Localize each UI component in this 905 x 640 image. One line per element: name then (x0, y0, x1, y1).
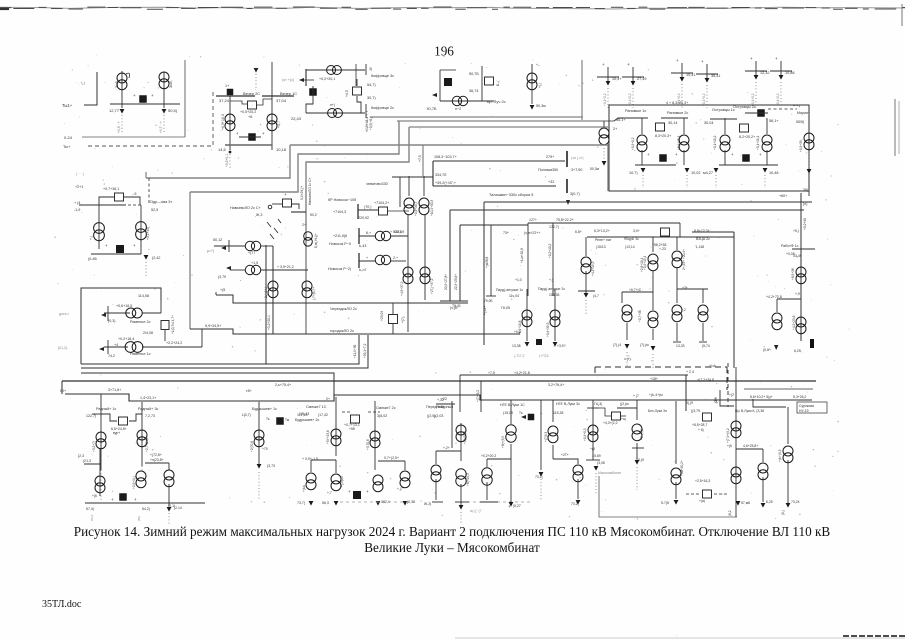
svg-text:11ч,04: 11ч,04 (509, 294, 519, 298)
feeder B2 wire (271, 62, 273, 150)
T-bar busbar lower (566, 179, 568, 193)
svg-text:+7104,2+: +7104,2+ (374, 201, 389, 205)
dotted tail (460, 512, 462, 524)
svg-text:+0,5: +0,5 (514, 330, 521, 334)
svg-text:Бес,Луки Зп: Бес,Луки Зп (648, 409, 667, 413)
staircase 2 drop (189, 192, 191, 329)
svg-text:37,04: 37,04 (276, 98, 287, 103)
svg-text:+2,9+1(,): +2,9+1(,) (132, 476, 136, 489)
scan noise dash (198, 7, 218, 9)
routing connector (422, 145, 424, 176)
lower gray bus (225, 144, 272, 146)
svg-text:(за (,зт): (за (,зт) (571, 156, 584, 160)
tie bus (719, 164, 778, 166)
feeder wire (683, 118, 685, 134)
bus tick (632, 447, 644, 449)
end bar (305, 69, 307, 86)
feeder wire (258, 402, 260, 464)
feeder B1 wire (229, 96, 231, 150)
corridor bus 2 (409, 126, 609, 128)
wire (359, 235, 376, 237)
regulator (389, 315, 398, 324)
column wire (490, 225, 492, 296)
svg-text:Островцы 1с: Островцы 1с (712, 108, 735, 112)
svg-text:20,9+27,8+: 20,9+27,8+ (444, 274, 448, 290)
bar (358, 228, 360, 244)
svg-text:(50,: (50, (137, 516, 141, 521)
svg-text:56,1+: 56,1+ (769, 119, 779, 123)
dashed tie (768, 108, 797, 110)
transformer (456, 425, 466, 442)
wire (435, 479, 437, 500)
svg-text:Б,м(,НЦ(+: Б,м(,НЦ(+ (314, 233, 318, 248)
feeder bar 4 (696, 73, 718, 75)
svg-text:Смекке7 2с: Смекке7 2с (376, 406, 396, 410)
svg-text:+0,1+0,2: +0,1+0,2 (776, 93, 780, 106)
svg-text:Ь,43: Ь,43 (359, 244, 366, 248)
svg-text:городокЛО 2с: городокЛО 2с (330, 329, 354, 333)
tie bus (85, 502, 205, 504)
wire (692, 231, 734, 233)
svg-text:-1,9: -1,9 (74, 208, 80, 212)
box left vertical 2 (449, 210, 451, 301)
svg-text:+(6: +(6 (727, 444, 732, 448)
svg-text:(3,08: (3,08 (597, 461, 605, 465)
regulator (703, 413, 712, 421)
scan noise dash (667, 7, 687, 9)
svg-text:+4,2+72,8: +4,2+72,8 (766, 295, 782, 299)
svg-text:+0,2+20,2: +0,2+20,2 (481, 454, 496, 458)
svg-text:+: + (151, 93, 154, 98)
svg-text:90црЬ 1с: 90црЬ 1с (624, 237, 639, 241)
wire (310, 460, 312, 472)
dotted tail (764, 175, 766, 188)
tick (699, 341, 707, 343)
svg-text:74,2: 74,2 (108, 354, 115, 358)
feeder wire (592, 400, 594, 460)
svg-text:+60+: +60+ (779, 194, 787, 198)
svg-text:Новосок Р−2): Новосок Р−2) (328, 267, 351, 271)
wire (168, 484, 170, 506)
dotted tail (366, 111, 368, 133)
dotted tail (595, 473, 597, 495)
svg-text:(0,3): (0,3) (108, 319, 115, 323)
svg-text:10,48: 10,48 (769, 171, 779, 175)
svg-text:+7+(7,2: +7+(7,2 (640, 429, 644, 440)
arrow down (566, 200, 570, 205)
svg-text:НГЕ В,Луки 1С: НГЕ В,Луки 1С (500, 403, 525, 407)
svg-text:(0,): (0,) (781, 510, 785, 515)
wire (510, 444, 512, 502)
svg-text:10,18: 10,18 (276, 147, 287, 152)
svg-text:+0,5 · +: +0,5 · + (117, 121, 121, 133)
wire (776, 299, 778, 312)
faint dashes (455, 501, 530, 503)
scan noise dash (293, 6, 315, 8)
wire (142, 346, 202, 348)
bus tick (92, 413, 106, 415)
feeder wire (787, 407, 789, 444)
svg-text:6,25: 6,25 (766, 500, 773, 504)
transformer (420, 267, 430, 284)
svg-text:+8(+(3,5: +8(+(3,5 (501, 436, 505, 448)
load arrow A1 (120, 109, 125, 114)
svg-text:50,7Б: 50,7Б (469, 72, 479, 76)
transformer I1 (126, 308, 143, 318)
svg-text:Пекарный: Пекарный (436, 405, 453, 409)
long line C (81, 373, 334, 395)
feeder wire (724, 150, 726, 165)
svg-text:12,32: 12,32 (760, 71, 770, 75)
wire (104, 346, 128, 348)
scan noise dash (707, 7, 728, 9)
breaker F (116, 245, 124, 253)
svg-text:+1,5: +1,5 (251, 261, 258, 265)
svg-text:+: + (284, 192, 287, 197)
bus bar (661, 117, 688, 119)
wire (777, 298, 801, 300)
svg-text:Сурокова: Сурокова (799, 404, 814, 408)
tap wire (257, 99, 272, 105)
scan noise dash (822, 7, 830, 9)
load arrow (714, 168, 719, 173)
svg-text:+1,0: +1,0 (515, 278, 522, 282)
box bus lower (450, 209, 804, 211)
svg-text:'1,148: '1,148 (695, 245, 704, 249)
scan noise dash (320, 7, 337, 9)
scan noise top edge (0, 7, 905, 9)
feeder wire (766, 118, 768, 134)
tick (432, 501, 443, 503)
svg-text:115,38: 115,38 (553, 411, 563, 415)
wire (423, 176, 425, 196)
line 330kV a (433, 160, 565, 162)
svg-text:8,8+72,3+: 8,8+72,3+ (694, 229, 710, 233)
svg-text:Ть: Ть (519, 411, 523, 415)
svg-text:36,1+: 36,1+ (616, 118, 626, 122)
svg-text:8,3+26,2: 8,3+26,2 (793, 395, 806, 399)
feeder drop (632, 67, 634, 81)
transformer (403, 267, 413, 284)
wire (99, 449, 101, 496)
scan noise dash (166, 7, 179, 9)
arrow left (221, 246, 226, 250)
svg-text:+: + (133, 243, 136, 248)
feeder drop (780, 61, 782, 75)
svg-text:+0,9+0,2: +0,9+0,2 (631, 137, 635, 150)
svg-text:(2,3: (2,3 (78, 454, 84, 458)
load arrow (144, 255, 149, 260)
svg-text:Ж,3: Ж,3 (256, 213, 262, 217)
svg-text:Рисунок 14. Зимний режим макси: Рисунок 14. Зимний режим максимальных на… (74, 524, 831, 539)
svg-text:+(ЬЬ: +(ЬЬ (302, 485, 306, 492)
wire (365, 64, 367, 75)
svg-text:+: + (675, 152, 678, 157)
svg-text:8,3+20,3+: 8,3+20,3+ (655, 134, 671, 138)
dashed stub (342, 411, 352, 413)
svg-text:Ж,2): Ж,2) (424, 502, 431, 506)
breaker C (309, 88, 317, 96)
feeder bar 6 (770, 70, 792, 72)
wire (160, 300, 162, 313)
svg-text:127+: 127+ (529, 218, 537, 222)
svg-text:+11,9+36: +11,9+36 (353, 345, 357, 358)
svg-text:+39,1+7,2: +39,1+7,2 (363, 343, 367, 358)
transformer (758, 463, 768, 480)
svg-text:(4,7: (4,7 (593, 294, 599, 298)
end tick (440, 300, 468, 302)
svg-text:Раменье 2с: Раменье 2с (130, 320, 151, 324)
regulator B (248, 101, 257, 109)
svg-text:+ 2 4: + 2 4 (686, 370, 694, 374)
transformer (404, 198, 414, 215)
load arrow (807, 169, 812, 174)
dotted tail (607, 88, 609, 108)
feeder wire (140, 205, 142, 254)
svg-text:Ранимые 1с: Ранимые 1с (625, 109, 646, 113)
wire (357, 96, 361, 113)
svg-text:Островцы 2с: Островцы 2с (733, 105, 756, 109)
svg-text:+7,5: +7,5 (418, 155, 422, 162)
column wire (585, 237, 587, 256)
feeder wire (141, 402, 143, 466)
gray routing wire (599, 476, 737, 517)
regulator (703, 490, 712, 498)
svg-text:Кифровце 2с: Кифровце 2с (371, 106, 394, 110)
wire (702, 289, 704, 303)
tie wire (239, 136, 261, 138)
svg-text:п−2: п−2 (455, 107, 461, 111)
dotted tail (540, 479, 542, 500)
riser (201, 329, 203, 347)
T-bar busbar upper (566, 151, 568, 167)
outer box right (581, 60, 583, 120)
regulator R2 (740, 124, 749, 132)
stub (356, 79, 358, 86)
svg-text:(2+: (2+ (714, 398, 718, 403)
transformer (731, 421, 741, 438)
breaker (276, 417, 284, 425)
svg-text:+(7(9,3: +(7(9,3 (544, 432, 548, 442)
svg-text:(15/13: (15/13 (596, 245, 606, 249)
svg-text:30,04: 30,04 (704, 121, 714, 125)
svg-text:((2,(м: ((2,(м (620, 402, 629, 406)
tick bar (291, 211, 306, 213)
svg-text:2+: 2+ (326, 397, 330, 401)
svg-text:(2,42: (2,42 (152, 256, 160, 260)
svg-text:+(77: +(77 (248, 251, 255, 255)
transformer (720, 135, 730, 152)
scan noise dash (0, 7, 11, 9)
regulator (119, 417, 128, 425)
svg-text:Ю,7Б: Ю,7Б (427, 107, 437, 111)
cluster C top bus (306, 69, 365, 71)
breaker (742, 154, 750, 162)
svg-text:279+: 279+ (546, 155, 554, 159)
scan noise dash (553, 7, 573, 9)
svg-text:Ты1+: Ты1+ (62, 103, 73, 108)
wire (435, 451, 437, 464)
scan noise dash (513, 6, 531, 8)
feeder vertical (424, 214, 426, 300)
breaker (528, 414, 535, 421)
loop wire (101, 414, 117, 421)
svg-text:1,4+23,1+: 1,4+23,1+ (140, 396, 156, 400)
svg-text:(7),(4: (7),(4 (613, 343, 621, 347)
breaker (659, 154, 667, 162)
svg-text:Мария+: Мария+ (797, 111, 810, 115)
arrow left (521, 415, 526, 419)
transformer (268, 281, 278, 298)
transformer H (245, 241, 261, 250)
breaker B2 (248, 133, 256, 141)
svg-text:+0(+20,4: +0(+20,4 (463, 431, 467, 444)
dotted tail (121, 115, 123, 134)
wire (388, 210, 409, 212)
svg-text:Будрышев+ 1с: Будрышев+ 1с (252, 407, 277, 411)
svg-text:Великие Луки – Мясокомбинат: Великие Луки – Мясокомбинат (364, 540, 540, 555)
transformer T1 (117, 73, 127, 90)
bus jog (753, 399, 786, 407)
svg-text:+3,2+7): +3,2+7) (92, 441, 96, 452)
svg-text:(8,2: (8,2 (728, 510, 732, 516)
svg-text:+0,9+0,3: +0,9+0,3 (583, 428, 587, 441)
svg-text:+(Ь+(9,3: +(Ь+(9,3 (778, 449, 782, 462)
svg-text:+н(23,8+: +н(23,8+ (150, 458, 164, 462)
transformer (731, 467, 741, 484)
svg-text:+(6: +(6 (92, 494, 97, 498)
svg-text:Пард(-антркат 1с: Пард(-антркат 1с (496, 288, 523, 292)
breaker cluster A (139, 95, 147, 103)
svg-text:(ч,(Б: (ч,(Б (450, 306, 458, 310)
svg-text:+0,1+30(: +0,1+30( (146, 226, 150, 240)
transformer (306, 473, 316, 490)
column wire (554, 289, 556, 341)
transformer (637, 135, 647, 152)
fault marker (254, 68, 259, 73)
Ramenye box edge (81, 288, 161, 364)
routing line upper (290, 145, 608, 191)
svg-text:+4,1+15,9: +4,1+15,9 (591, 261, 595, 276)
transformer (648, 311, 658, 328)
svg-text:10,7): 10,7) (629, 171, 638, 175)
feeder arrow (779, 75, 784, 80)
svg-text:+0,4+30,7: +0,4+30,7 (414, 201, 418, 216)
wire (261, 269, 308, 271)
svg-text:+7,5: +7,5 (488, 371, 495, 375)
svg-text:5-7(8: 5-7(8 (661, 501, 669, 505)
svg-text:+0,9+18,1: +0,9+18,1 (365, 117, 369, 132)
dotted tail (808, 153, 810, 168)
svg-text:м4,27: м4,27 (703, 171, 713, 175)
cluster A lower bus (110, 103, 180, 105)
inner bus lower (587, 236, 734, 238)
svg-text:.: . (64, 120, 65, 125)
svg-text:Кр- Луч 2с: Кр- Луч 2с (487, 99, 506, 104)
load arrow (594, 466, 599, 471)
feeder bar 1 (597, 76, 619, 78)
dotted tail (755, 82, 757, 108)
svg-text:Зыб,: Зыб, (115, 80, 119, 88)
dashed box right (726, 367, 728, 390)
connector (392, 303, 394, 314)
loop wire (599, 408, 611, 416)
routing staircase 1 (146, 145, 290, 178)
svg-text:+: + (508, 504, 511, 509)
transformer (698, 305, 708, 322)
wire (762, 477, 764, 502)
routing staircase 2 (190, 121, 399, 192)
svg-text:50,3м: 50,3м (536, 104, 546, 108)
dotted tail (585, 300, 587, 316)
svg-text:(+73,6: (+73,6 (539, 354, 549, 358)
svg-text:+4,7: +4,7 (277, 121, 281, 128)
dashed box top (595, 366, 727, 368)
svg-text:36): 36) (803, 188, 808, 192)
regulator Navyevo (283, 199, 292, 207)
tick (455, 501, 469, 503)
svg-text:37,24: 37,24 (219, 98, 230, 103)
svg-text:+0,6+16,5: +0,6+16,5 (116, 304, 132, 308)
load arrow (309, 501, 314, 506)
transformer T2 lead (163, 72, 165, 108)
svg-text:+(а): +(а) (699, 499, 705, 503)
load arrow (576, 500, 581, 505)
wire (214, 245, 245, 247)
scan noise dash (39, 6, 47, 8)
svg-text:2,+: 2,+ (393, 256, 398, 260)
scan noise dash (732, 6, 750, 8)
svg-text:Смекке7 1С: Смекке7 1С (306, 405, 327, 409)
svg-text:73,2(: 73,2( (571, 502, 580, 506)
svg-text:(£1,2(.: (£1,2(. (58, 346, 68, 350)
transformer (375, 255, 391, 264)
svg-text:+,9: +,9 (795, 292, 800, 296)
svg-text:+,): +,) (89, 236, 93, 240)
feeder wire (641, 150, 643, 165)
wire (358, 209, 378, 211)
bottom bus (91, 253, 141, 255)
breaker box (661, 228, 670, 236)
svg-text:+20,4+: +20,4+ (682, 249, 686, 259)
svg-text:+щ: +щ (621, 417, 626, 421)
wire (306, 86, 313, 113)
transformer (245, 265, 261, 274)
arrow left (99, 347, 104, 351)
svg-text:+(Ь,4+(м: +(Ь,4+(м (649, 393, 663, 397)
tap wire (230, 101, 247, 104)
transformer small (599, 128, 609, 145)
svg-text:2/4,08: 2/4,08 (143, 331, 153, 335)
feeder drop (755, 61, 757, 75)
scan noise dash (421, 7, 429, 9)
scan noise dash (371, 7, 391, 9)
feeder bar 3 (671, 72, 693, 74)
dashed riser (148, 178, 150, 205)
wire (355, 64, 357, 86)
transformer (588, 425, 598, 442)
wire (104, 312, 130, 314)
svg-text:+ (7: + (7 (633, 394, 639, 398)
long line B (81, 335, 368, 368)
feeder wire (510, 400, 512, 424)
wire (676, 323, 678, 341)
terminator (810, 339, 814, 348)
scan noise dash (393, 8, 401, 10)
scan noise dash (147, 8, 163, 10)
column wire (526, 289, 528, 341)
svg-text:(ч,м+22++: (ч,м+22++ (524, 231, 540, 235)
